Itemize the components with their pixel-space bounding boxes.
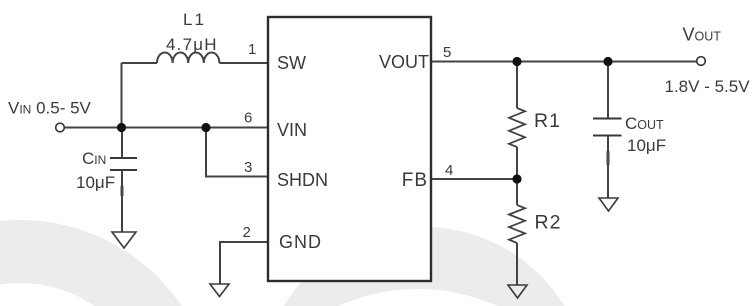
- svg-text:2: 2: [243, 224, 251, 241]
- svg-text:4: 4: [445, 162, 453, 179]
- svg-text:4.7μH: 4.7μH: [166, 35, 218, 54]
- svg-text:SHDN: SHDN: [277, 170, 328, 190]
- svg-text:6: 6: [244, 110, 252, 127]
- svg-text:SW: SW: [277, 53, 306, 73]
- svg-text:5: 5: [443, 44, 451, 61]
- svg-text:1.8V - 5.5V: 1.8V - 5.5V: [665, 77, 751, 96]
- svg-text:10μF: 10μF: [627, 136, 666, 155]
- svg-text:1: 1: [248, 41, 256, 58]
- svg-text:R2: R2: [535, 212, 562, 234]
- svg-text:VIN: VIN: [277, 120, 307, 140]
- svg-text:VOUT: VOUT: [379, 52, 429, 72]
- svg-text:FB: FB: [402, 170, 428, 191]
- svg-text:GND: GND: [279, 232, 322, 252]
- svg-text:3: 3: [244, 159, 252, 176]
- svg-text:R1: R1: [534, 110, 561, 132]
- svg-text:10μF: 10μF: [76, 173, 115, 192]
- svg-text:L1: L1: [183, 10, 206, 29]
